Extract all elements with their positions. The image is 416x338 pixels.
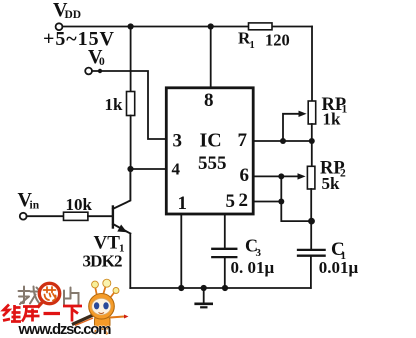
ground (196, 288, 212, 307)
svg-text:555: 555 (198, 153, 227, 174)
svg-text:7: 7 (238, 130, 248, 151)
wire: rail pin7 to RP2 (311, 141, 313, 166)
potentiometer RP2 (281, 166, 315, 189)
node: RP1 wiper to pin 7 (280, 138, 286, 144)
capacitor C3 (212, 249, 236, 257)
svg-text:0: 0 (99, 56, 105, 68)
node: RP2 bottom / C1 junction (308, 218, 315, 225)
wire: bottom ground rail (130, 287, 310, 289)
node: top rail to pin 8 (208, 23, 214, 29)
svg-text:3DK2: 3DK2 (83, 252, 123, 271)
svg-text:2: 2 (340, 168, 346, 180)
transistor VT1 (113, 169, 130, 234)
node: pin 1 to ground rail (178, 285, 184, 291)
wire: 1k lower lead (130, 116, 132, 170)
watermark: zhao (find) glyph (19, 287, 40, 305)
node: ground tap (201, 285, 207, 291)
wire: pin 7 (253, 140, 312, 142)
wire: pin 8 lead (210, 27, 212, 88)
node: RP1 bottom to pin 7 (309, 138, 315, 144)
capacitor C1 (298, 250, 325, 256)
terminal Vin (20, 213, 27, 220)
wire: Vin to 10k (27, 215, 64, 217)
label RP2 (320, 159, 346, 180)
label V0 (88, 46, 105, 68)
resistor R1 (249, 23, 273, 30)
node: C3 to ground rail (222, 285, 228, 291)
label R1 (238, 29, 255, 52)
wire: top VDD rail (62, 26, 312, 28)
svg-text:DD: DD (65, 9, 82, 21)
svg-text:IC: IC (200, 130, 222, 152)
wire: C1 to ground rail (310, 257, 312, 288)
svg-text:3: 3 (173, 131, 183, 152)
svg-text:in: in (30, 200, 40, 212)
watermark: red glyph ku (22, 307, 40, 322)
svg-text:1: 1 (178, 193, 188, 214)
svg-text:8: 8 (204, 90, 214, 111)
svg-text:120: 120 (265, 31, 290, 50)
wire: emitter to ground rail (129, 234, 131, 289)
wire: pin 1 lead (180, 214, 182, 288)
label Vin (18, 189, 40, 212)
label RP1 (322, 95, 348, 116)
wire: RP1 bottom lead (311, 124, 313, 141)
label VT1 (94, 233, 125, 255)
svg-text:5k: 5k (322, 174, 341, 193)
svg-text:5: 5 (226, 191, 236, 212)
svg-text:10k: 10k (66, 195, 93, 214)
wire: C3 to ground rail (224, 258, 226, 288)
svg-text:www.dzsc.com: www.dzsc.com (18, 321, 112, 338)
wire: 1k upper lead (130, 27, 132, 92)
watermark: magnifier ring (38, 283, 60, 307)
watermark: weiku (red) glyph wei (3, 305, 21, 322)
terminal VDD (56, 23, 63, 30)
wire: pin2/6 net to RP2 bottom (281, 176, 311, 221)
wire: V0 to pin 3 (92, 71, 166, 139)
watermark: pian glyph (64, 288, 79, 307)
node: pin 2 junction (278, 199, 284, 205)
node: top rail to 1k resistor (128, 23, 134, 29)
wire: right rail down to RP1 (311, 27, 313, 102)
wire: pin 2 (253, 201, 281, 203)
potentiometer RP1 (283, 101, 316, 141)
svg-text:0.01μ: 0.01μ (319, 258, 359, 277)
svg-text:+5~15V: +5~15V (43, 28, 115, 50)
svg-text:1k: 1k (323, 110, 342, 129)
svg-text:1: 1 (342, 104, 348, 116)
svg-text:2: 2 (239, 190, 249, 211)
svg-text:1: 1 (250, 40, 255, 51)
watermark: mascot (72, 279, 129, 334)
node: pin4 / collector junction (127, 166, 133, 172)
label VDD (53, 0, 81, 21)
label C3 (245, 236, 262, 260)
svg-text:4: 4 (172, 160, 181, 179)
wire: pin 6 (253, 175, 281, 177)
label C1 (331, 239, 346, 262)
wire: pin 4 (131, 168, 167, 170)
watermark: red glyph yi (44, 312, 61, 315)
resistor 10k (64, 212, 88, 220)
terminal V0 (85, 68, 92, 75)
op-amp U1: IC 555 box (166, 88, 253, 214)
node: pin 6 / RP2 wiper (278, 173, 284, 179)
wire: 10k to base (88, 215, 113, 217)
watermark: red glyph xia (63, 306, 82, 322)
wire: RP2 bottom lead to C1 (310, 189, 312, 249)
resistor 1k (127, 92, 135, 116)
svg-text:1k: 1k (105, 95, 124, 114)
watermark: xin (chip) glyph (44, 287, 56, 301)
svg-text:6: 6 (240, 165, 250, 186)
svg-text:VT: VT (94, 233, 121, 254)
wire: pin 5 to C3 (224, 214, 226, 248)
svg-text:0. 01μ: 0. 01μ (231, 258, 275, 277)
node: V0 stub dot (98, 69, 102, 73)
